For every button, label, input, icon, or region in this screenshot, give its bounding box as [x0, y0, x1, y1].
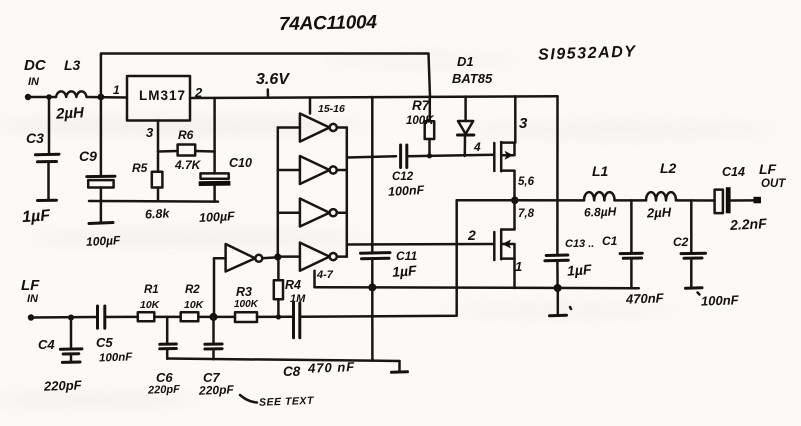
capacitor C8: [292, 303, 295, 338]
svg-text:1: 1: [515, 259, 522, 274]
resistor R4: [277, 259, 280, 281]
wire ground rail: [315, 287, 639, 288]
svg-text:5,6: 5,6: [518, 176, 535, 188]
svg-text:220pF: 220pF: [43, 377, 83, 393]
svg-text:D1: D1: [457, 54, 474, 69]
capacitor C6: [166, 317, 169, 344]
svg-text:C12: C12: [392, 171, 414, 183]
capacitor C7: [212, 317, 215, 344]
terminal LF OUT: [754, 197, 762, 204]
svg-text:2.2nF: 2.2nF: [729, 215, 768, 233]
capacitor C5: [96, 306, 99, 328]
inverter U1d: [278, 255, 300, 258]
capacitor C11: [371, 97, 374, 253]
wire gate drive to C12: [347, 156, 396, 157]
svg-text:7,8: 7,8: [518, 208, 535, 220]
note SEE TEXT: [240, 395, 257, 403]
terminal DC IN: [25, 94, 31, 100]
svg-text:IN: IN: [27, 293, 39, 305]
capacitor C10 (electrolytic): [213, 98, 216, 173]
svg-text:10K: 10K: [184, 299, 205, 311]
node R7 bottom junction: [427, 153, 432, 158]
svg-text:C1: C1: [602, 234, 618, 248]
node output junction: [511, 197, 519, 205]
transistor Q1b N-MOSFET (SI9532 bottom): [493, 232, 496, 260]
svg-text:C3: C3: [26, 130, 44, 146]
resistor R6: [158, 150, 178, 153]
svg-text:C4: C4: [38, 337, 55, 352]
svg-text:6.8µH: 6.8µH: [584, 204, 617, 219]
node 3.6V tick: [267, 90, 270, 98]
capacitor C14 (output, electrolytic): [715, 190, 723, 214]
svg-text:220pF: 220pF: [198, 383, 235, 398]
svg-text:L1: L1: [592, 163, 609, 179]
inverter U1b: [278, 169, 300, 172]
svg-text:C6: C6: [156, 370, 173, 385]
transistor Q1a P-MOSFET (SI9532 top): [493, 143, 496, 171]
node C3 tap: [46, 94, 52, 100]
svg-text:4: 4: [473, 140, 481, 154]
capacitor C4: [70, 318, 73, 349]
node input junction: [98, 94, 105, 101]
inverter U1a: [278, 126, 300, 129]
pin 3 wire (SI9532): [514, 96, 517, 142]
svg-text:100nF: 100nF: [388, 183, 425, 199]
svg-text:6.8k: 6.8k: [145, 206, 171, 221]
wire C12 to gate node: [407, 155, 494, 156]
node C4 tap: [68, 315, 74, 321]
svg-text:1: 1: [113, 83, 120, 97]
svg-text:C14: C14: [722, 165, 745, 179]
wire 3.6V rail: [190, 96, 558, 98]
svg-text:15-16: 15-16: [318, 103, 345, 115]
svg-text:74AC11004: 74AC11004: [279, 12, 378, 35]
svg-text:100K: 100K: [406, 115, 434, 127]
capacitor C3: [48, 97, 51, 153]
node R2/C7/riser junction: [210, 313, 218, 321]
node inverter drive junction: [274, 253, 281, 260]
resistor R7: [429, 97, 432, 121]
wire gate line (pin 2): [347, 243, 495, 246]
svg-text:4-7: 4-7: [316, 269, 334, 281]
svg-text:R1: R1: [144, 284, 159, 296]
svg-text:C11: C11: [396, 249, 417, 263]
svg-text:R3: R3: [236, 285, 252, 299]
wire L2 to C14: [676, 199, 715, 202]
svg-text:R4: R4: [285, 278, 301, 292]
svg-text:C8: C8: [283, 364, 301, 379]
resistor R5: [157, 152, 160, 172]
inverter U1e (driver): [214, 257, 226, 260]
svg-text:LF: LF: [21, 277, 40, 294]
ground (C13): [557, 288, 560, 314]
svg-text:SEE TEXT: SEE TEXT: [259, 395, 315, 409]
wire GND tap pins 4-7: [313, 271, 316, 287]
wire L3 to LM317: [87, 96, 127, 99]
wire riser to U1e input: [213, 258, 216, 317]
regulator U2 LM317: [127, 76, 190, 121]
svg-text:2µH: 2µH: [646, 205, 672, 221]
wire LF input: [31, 316, 96, 319]
svg-text:3: 3: [519, 115, 528, 132]
wire inverter output bus: [346, 128, 349, 257]
svg-text:DC: DC: [24, 57, 47, 74]
svg-text:100K: 100K: [234, 299, 259, 310]
wire VCC tap pins 15-16: [309, 98, 312, 114]
svg-text:SI9532ADY: SI9532ADY: [538, 43, 637, 63]
inductor L1: [584, 192, 615, 200]
wire DC input rail: [28, 96, 56, 99]
svg-text:OUT: OUT: [761, 178, 786, 190]
diode D1 BAT85: [464, 97, 467, 122]
svg-text:470nF: 470nF: [625, 290, 665, 306]
svg-text:LF: LF: [759, 161, 777, 177]
svg-text:R2: R2: [185, 284, 200, 296]
svg-text:100µF: 100µF: [86, 233, 122, 249]
ground (C4): [62, 361, 80, 364]
svg-text:100µF: 100µF: [199, 209, 236, 225]
capacitor C13: [546, 254, 568, 258]
ground (C2): [686, 286, 703, 290]
svg-text:R5: R5: [132, 161, 148, 175]
capacitor C12: [399, 145, 402, 168]
svg-text:L3: L3: [64, 57, 81, 73]
svg-text:C9: C9: [79, 148, 97, 164]
capacitor C1: [630, 200, 633, 252]
inductor L3: [56, 91, 87, 97]
svg-text:10K: 10K: [140, 299, 161, 311]
svg-text:3: 3: [146, 125, 154, 140]
resistor R1: [138, 312, 155, 321]
svg-text:C2: C2: [673, 235, 689, 249]
svg-text:4.7K: 4.7K: [174, 158, 202, 172]
svg-text:L2: L2: [660, 160, 677, 176]
inductor L2: [646, 192, 676, 200]
svg-text:2: 2: [467, 227, 476, 243]
svg-text:IN: IN: [28, 76, 40, 88]
wire inverter input bus: [277, 128, 280, 258]
svg-text:2µH: 2µH: [55, 104, 86, 123]
wire left ground rail: [89, 200, 218, 203]
svg-text:220pF: 220pF: [147, 383, 180, 396]
svg-text:1µF: 1µF: [392, 262, 418, 280]
ground (bottom rail): [398, 361, 401, 371]
terminal LF IN: [28, 314, 34, 320]
wire 3.6V rail corner down to C13: [556, 96, 559, 254]
node C11 ground junction: [368, 283, 376, 291]
svg-text:1µF: 1µF: [566, 261, 592, 279]
capacitor C2: [690, 200, 693, 252]
svg-text:LM317: LM317: [139, 88, 186, 103]
svg-text:R7: R7: [412, 98, 431, 113]
node R4 bottom junction: [276, 314, 281, 319]
ground (C3): [38, 199, 57, 202]
resistor R2: [181, 312, 199, 321]
svg-text:C5: C5: [96, 335, 113, 350]
ground (C9): [89, 223, 113, 224]
node C13 ground junction: [554, 284, 562, 292]
resistor R3: [235, 312, 257, 322]
wire bottom rail: [167, 359, 399, 362]
svg-text:R6: R6: [178, 128, 194, 142]
svg-text:1µF: 1µF: [22, 207, 52, 226]
inverter U1c: [278, 211, 300, 214]
wire output node to L1: [515, 199, 584, 202]
wire top bus: [101, 54, 430, 98]
capacitor C9 (electrolytic): [100, 97, 103, 176]
svg-text:100nF: 100nF: [701, 292, 740, 308]
wire C11 line down to bottom rail: [371, 287, 374, 360]
svg-text:C13 ..: C13 ..: [565, 238, 594, 250]
svg-text:BAT85: BAT85: [452, 71, 493, 86]
wire LM317 adj pin 3: [157, 121, 160, 152]
svg-text:100nF: 100nF: [99, 351, 134, 364]
svg-text:3.6V: 3.6V: [256, 71, 290, 88]
wire L1 to L2: [615, 199, 646, 202]
svg-text:C10: C10: [229, 156, 252, 170]
wire C9 ground stub: [100, 201, 103, 221]
wire feedback from output node: [457, 199, 515, 202]
